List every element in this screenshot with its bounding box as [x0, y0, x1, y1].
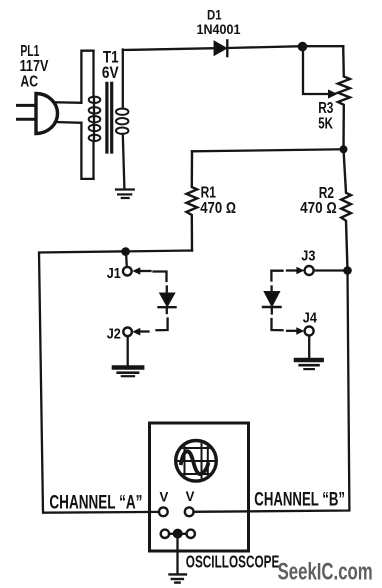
ground J2 — [114, 368, 142, 377]
svg-text:J1: J1 — [107, 265, 121, 282]
lower terminals — [161, 530, 169, 538]
svg-text:V: V — [186, 489, 195, 504]
dashed corner J3 to LED2 — [271, 271, 282, 281]
svg-text:6V: 6V — [102, 63, 119, 82]
ground J4 — [296, 360, 322, 369]
node J1 junction — [121, 247, 130, 256]
wire primary loop left/top/bottom — [81, 51, 93, 179]
resistor R1 — [186, 151, 197, 250]
wire mid-left rail — [39, 251, 192, 513]
wire plug top to primary loop — [55, 101, 82, 104]
svg-text:5K: 5K — [318, 115, 333, 132]
arrow into J4 — [287, 330, 296, 332]
svg-text:CHANNEL “A”: CHANNEL “A” — [49, 493, 142, 514]
svg-text:SeekIC.com: SeekIC.com — [278, 559, 373, 586]
plug prong bottom — [18, 118, 37, 121]
label R2 470ohm — [300, 185, 337, 217]
wire D1 to node — [227, 46, 302, 48]
svg-text:J2: J2 — [107, 325, 121, 342]
svg-text:V: V — [160, 490, 169, 505]
plug PL1 — [36, 94, 57, 134]
svg-text:470 Ω: 470 Ω — [200, 200, 236, 217]
label T1 6V — [102, 48, 119, 83]
jack J4 — [305, 327, 314, 336]
wire J4 to ground — [308, 336, 310, 358]
wire node to J1 — [125, 252, 128, 267]
R3 wiper arrowhead — [328, 89, 338, 98]
svg-text:J4: J4 — [303, 309, 318, 326]
ground post (filled) — [173, 529, 183, 539]
CRT graticule — [176, 440, 217, 482]
label J2 — [107, 325, 121, 342]
svg-text:AC: AC — [20, 73, 38, 90]
wire R3 wiper — [303, 46, 329, 94]
wire node to R3 top — [302, 45, 343, 47]
transformer T1 primary winding — [89, 51, 101, 179]
jack J1 — [123, 267, 132, 276]
wire J2 to ground — [127, 336, 129, 365]
label CHANNEL A — [49, 493, 142, 514]
jack J3 — [305, 266, 314, 275]
CRT sine wave — [181, 451, 208, 474]
dashed corner LED2 to J4 — [272, 319, 283, 330]
wire J3 to node — [314, 269, 348, 271]
label J1 — [107, 265, 121, 282]
node top junction — [298, 42, 308, 52]
label V V — [160, 489, 195, 505]
dashed corner LED to J2 — [157, 319, 168, 331]
dashed corner J1 to LED — [154, 272, 167, 282]
oscilloscope box — [150, 423, 249, 551]
svg-text:1N4001: 1N4001 — [197, 22, 241, 37]
transformer T1 secondary winding — [116, 50, 128, 190]
svg-text:J3: J3 — [301, 247, 315, 264]
jack J2 — [123, 328, 132, 337]
wire right rail J3 node to channel B — [194, 271, 350, 512]
potentiometer R3 — [338, 46, 350, 149]
transformer T1 core — [107, 83, 112, 152]
wire top rail secondary to D1 — [123, 48, 215, 50]
svg-text:CHANNEL “B”: CHANNEL “B” — [254, 490, 345, 511]
resistor R2 — [341, 149, 351, 270]
wire ground post to ground — [176, 534, 178, 573]
LED1 (diode) — [160, 293, 174, 306]
arrow into J1 — [140, 270, 151, 272]
terminal channel B — [185, 507, 194, 516]
watermark SeekIC.com — [278, 559, 373, 586]
wire plug bottom to primary loop — [55, 121, 81, 124]
arrow into J2 — [140, 330, 149, 332]
label PL1 117V AC — [20, 43, 49, 90]
svg-text:OSCILLOSCOPE: OSCILLOSCOPE — [186, 551, 279, 571]
plug prong top — [18, 104, 37, 107]
wire mid rail R1 to R3/R2 node — [192, 149, 344, 151]
node R3 bottom junction — [340, 145, 348, 153]
terminal channel A — [159, 507, 168, 516]
LED2 lead top — [270, 287, 272, 293]
arrow into J3 — [287, 269, 297, 271]
label R3 5K — [318, 100, 333, 132]
node J3 junction — [343, 266, 352, 275]
label J4 — [303, 309, 318, 326]
ground transformer secondary — [116, 190, 134, 199]
label OSCILLOSCOPE — [186, 551, 279, 571]
LED2 (diode) — [265, 292, 280, 306]
diode D1 — [214, 41, 226, 55]
oscilloscope CRT circle — [176, 441, 217, 482]
label R1 470ohm — [200, 185, 236, 217]
label J3 — [301, 247, 315, 264]
label CHANNEL B — [254, 490, 345, 511]
ground oscilloscope — [170, 574, 186, 582]
svg-text:D1: D1 — [207, 8, 222, 23]
label D1 1N4001 — [197, 8, 241, 38]
LED1 lead top — [166, 287, 168, 294]
svg-text:470 Ω: 470 Ω — [300, 200, 337, 217]
